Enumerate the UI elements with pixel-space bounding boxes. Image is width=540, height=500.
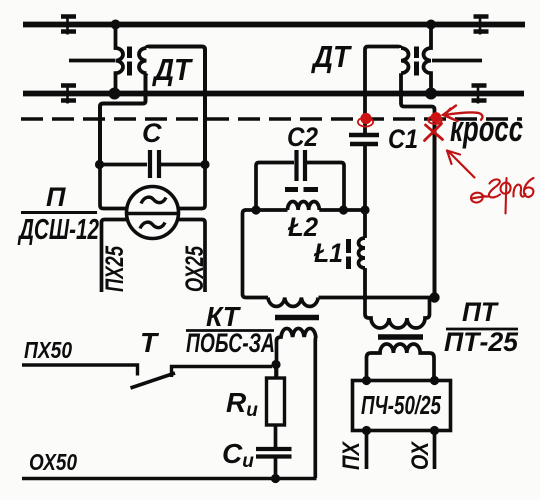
core of DT2 xyxy=(414,47,419,76)
node: DT2 bottom rail junction xyxy=(425,88,437,100)
transformer DT1 secondary winding xyxy=(139,48,146,73)
svg-text:ДТ: ДТ xyxy=(310,39,352,74)
label PX50 xyxy=(24,337,72,363)
node: DT1 bottom rail junction xyxy=(109,88,121,100)
insulated joint top-right xyxy=(474,15,489,35)
insulated joint bottom-left xyxy=(61,84,76,104)
svg-text:ПЧ-50/25: ПЧ-50/25 xyxy=(361,390,441,420)
svg-text:ОХ50: ОХ50 xyxy=(29,449,77,475)
annotation: red arrow to kross point xyxy=(443,106,482,122)
node: Ci joins OX50 line xyxy=(271,474,280,483)
node: box bottom-right xyxy=(430,426,439,435)
wire: OX terminal xyxy=(433,431,437,469)
node: DT2 top rail junction xyxy=(426,20,436,30)
wire: Ri to Ci xyxy=(274,425,278,447)
relay diameter divider xyxy=(127,212,180,216)
svg-text:ПХ: ПХ xyxy=(338,440,365,470)
transformer PT primary winding xyxy=(365,299,430,328)
annotation: red cross-out X xyxy=(425,124,443,141)
inductor L1 winding xyxy=(359,238,366,268)
svg-text:ПХ50: ПХ50 xyxy=(24,337,72,363)
relay upper winding symbol xyxy=(141,197,166,203)
node: C left xyxy=(95,160,104,169)
label KT / POBS-3A xyxy=(186,301,275,358)
label L2 xyxy=(287,212,318,242)
transformer PT secondary winding xyxy=(367,344,435,380)
wire: outer loop left side xyxy=(243,210,269,298)
core of DT1 xyxy=(127,47,132,76)
rail bottom xyxy=(23,91,524,97)
svg-text:кросс: кросс xyxy=(450,108,523,149)
relay lower winding symbol xyxy=(140,222,165,228)
svg-text:ОХ: ОХ xyxy=(407,440,434,470)
annotation: kross text xyxy=(450,108,523,149)
annotation: red arrow 2 xyxy=(447,151,475,178)
converter PCh-50/25 box xyxy=(353,381,451,431)
wire: DT2 midpoint tap xyxy=(432,59,482,63)
wire: OX50 line xyxy=(22,477,317,480)
node: loop bottom left xyxy=(251,205,260,214)
transformer DT2 secondary winding xyxy=(401,48,409,73)
wire: C loop top with capacitor C xyxy=(99,163,205,167)
core of L1 xyxy=(346,239,351,269)
wire: PX terminal xyxy=(365,431,369,469)
label Ci xyxy=(222,438,254,472)
transformer DT2 (right) track winding xyxy=(424,25,431,91)
svg-text:П: П xyxy=(46,182,66,212)
wire: DT1 secondary top lead to C loop right xyxy=(147,47,206,164)
annotation: red dot on C1 line xyxy=(358,113,373,127)
node: T contact line joins KT lead xyxy=(271,360,280,369)
wire: Ci to OX50 line xyxy=(274,459,278,478)
wire: KT secondary left lead xyxy=(275,340,279,378)
label DT2 xyxy=(310,39,352,74)
wire: bottom feed line with KT primary xyxy=(319,296,434,300)
node: box top-left xyxy=(362,376,371,385)
wire: L1 bottom to PT primary xyxy=(363,268,367,300)
wire: relay lower-left to PH25 tail xyxy=(102,220,129,293)
label PX25 xyxy=(101,245,129,292)
contact T fixed side xyxy=(172,367,273,378)
svg-text:ПОБС-ЗА: ПОБС-ЗА xyxy=(186,328,275,358)
node: loop bottom mid xyxy=(339,205,348,214)
label Ri xyxy=(226,387,258,421)
wire: resonant loop bottom line xyxy=(245,208,367,212)
svg-text:ДСШ-12: ДСШ-12 xyxy=(17,214,99,246)
label OX25 xyxy=(181,245,209,292)
core of L2 xyxy=(285,187,318,192)
insulated joint bottom-right xyxy=(472,84,487,104)
capacitor Ci plates xyxy=(256,449,292,457)
wire: C2 loop left side xyxy=(256,163,294,211)
label DT1 xyxy=(151,52,193,87)
svg-text:ПХ25: ПХ25 xyxy=(101,245,129,292)
label PX xyxy=(338,440,365,470)
label C2 xyxy=(287,122,318,152)
node: DT1 top rail junction xyxy=(111,20,121,30)
capacitor C2 plates xyxy=(297,150,306,181)
label T xyxy=(140,327,160,358)
wire: relay upper-left xyxy=(100,163,128,209)
label PCh-50/25 xyxy=(361,390,441,420)
core of PT xyxy=(378,334,423,340)
label P / DSSh-12 xyxy=(17,182,99,246)
svg-text:ПТ: ПТ xyxy=(462,297,499,327)
svg-text:C2: C2 xyxy=(287,122,318,152)
svg-text:ДТ: ДТ xyxy=(151,52,193,87)
wire: PX50 feed line xyxy=(22,365,138,376)
node: loop bottom right at C1 line xyxy=(360,205,369,214)
wire: T contact to Ri xyxy=(274,363,278,379)
svg-text:Ł1: Ł1 xyxy=(313,238,343,268)
svg-text:Т: Т xyxy=(140,327,160,358)
wire: DT2 secondary top lead down to C1 xyxy=(365,47,401,134)
transformer KT primary winding xyxy=(268,298,318,307)
node: C right xyxy=(200,160,209,169)
wire: C2 loop right side xyxy=(307,163,344,211)
svg-text:ПТ-25: ПТ-25 xyxy=(444,327,519,357)
wire: KT secondary right lead down to OX50 line xyxy=(313,340,317,478)
label PT / PT-25 xyxy=(444,297,519,357)
capacitor C1 plates xyxy=(349,135,379,144)
wire: kross vertical line xyxy=(433,119,437,296)
contact T blade xyxy=(131,373,176,388)
relay P (DSSh-12) body xyxy=(127,187,179,239)
inductor L2 winding xyxy=(288,202,320,211)
capacitor C plates xyxy=(150,150,159,178)
resistor Ri body xyxy=(267,378,285,425)
core of KT xyxy=(275,315,319,321)
label OX50 xyxy=(29,449,77,475)
label C xyxy=(142,118,162,148)
transformer KT secondary winding xyxy=(277,328,316,341)
dashed cable line xyxy=(21,117,522,121)
node: box top-right xyxy=(430,376,439,385)
svg-text:ОХ25: ОХ25 xyxy=(181,245,209,292)
svg-text:C1: C1 xyxy=(388,124,418,154)
wire: relay upper-right xyxy=(178,163,206,209)
wire: DT1 midpoint tap xyxy=(69,59,115,63)
insulated joint top-left xyxy=(61,15,76,35)
wire: C1 bottom down through L1 node xyxy=(363,146,367,238)
wire: DT1 secondary bottom lead to C loop left xyxy=(100,73,147,163)
node: feed line right xyxy=(429,292,439,302)
label L1 xyxy=(313,238,343,268)
rail top xyxy=(23,22,525,28)
label OX xyxy=(407,440,434,470)
svg-text:C: C xyxy=(142,118,162,148)
node: box bottom-left xyxy=(362,426,371,435)
annotation: red handwriting obryv xyxy=(471,178,534,214)
annotation: red dot on kross line xyxy=(428,112,442,124)
wire: DT2 secondary bottom lead to kross line xyxy=(401,73,435,120)
label C1 xyxy=(388,124,418,154)
transformer DT1 (left) track winding xyxy=(116,25,124,91)
wire: relay lower-right to OH25 tail xyxy=(177,220,205,293)
